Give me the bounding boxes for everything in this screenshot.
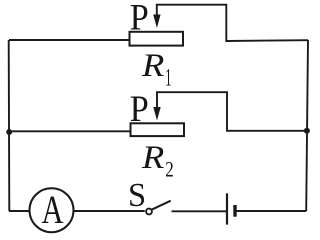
resistor R2 body (131, 123, 185, 136)
wire battery to bottom right (237, 210, 307, 212)
wire ammeter to switch (74, 210, 145, 212)
wire top horizontal to R1 (9, 39, 129, 41)
wire left vertical (8, 40, 11, 211)
resistor R1 slider arrow head (153, 15, 160, 29)
svg-text:S: S (128, 177, 146, 214)
wire bottom left to ammeter (9, 210, 30, 212)
label R1 (141, 48, 172, 91)
resistor R1 body (130, 32, 184, 46)
svg-text:R: R (141, 140, 164, 176)
svg-text:1: 1 (165, 64, 171, 91)
battery short plate (233, 205, 236, 217)
junction node left (6, 129, 12, 135)
battery long plate (226, 193, 228, 224)
svg-text:P: P (130, 89, 149, 130)
ammeter A (30, 187, 74, 232)
wire switch to battery (172, 210, 227, 212)
svg-text:2: 2 (165, 156, 174, 181)
wire R2 slider up and over (157, 92, 307, 131)
svg-text:P: P (130, 0, 149, 38)
switch pivot (146, 209, 152, 215)
label R2 (141, 140, 174, 181)
resistor R2 slider arrow head (153, 107, 160, 121)
wire right vertical (306, 40, 308, 211)
junction node right (304, 128, 310, 134)
wire R2 branch left (9, 130, 131, 132)
svg-text:R: R (141, 48, 164, 84)
wire R1 slider up and over (157, 5, 308, 41)
switch blade (152, 201, 171, 210)
svg-text:A: A (42, 187, 64, 232)
